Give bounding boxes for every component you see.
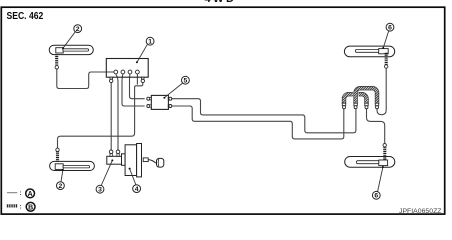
svg-text::: :: [19, 190, 21, 197]
wire junction5 lower-right port to coil connector1: [172, 106, 344, 139]
junction5 right ports: [168, 97, 172, 107]
svg-text:6: 6: [388, 25, 392, 32]
junction5 left ports: [147, 97, 152, 107]
label 4: [129, 168, 141, 193]
booster 4: [122, 144, 142, 177]
wire actuator right nipple to hose2-bottom: [58, 83, 143, 149]
wire hose2-top to actuator port1: [57, 69, 114, 89]
legend line type B: [7, 202, 35, 211]
label 2 bottom: [57, 169, 65, 190]
coil loop2 (legs x355.6 and x377): [356, 88, 377, 103]
wire actuator port1 down to master cylinder nipple2: [116, 74, 118, 150]
svg-text:2: 2: [59, 183, 63, 190]
label 5: [163, 76, 189, 98]
svg-text:2: 2: [76, 26, 80, 33]
wire actuator port2 to junction5 lower-left port: [122, 74, 145, 106]
pipe-end circle hose2 bottom: [56, 148, 59, 151]
coil at hose2 bottom: [56, 151, 59, 162]
wire actuator port3 to junction5 upper-left port: [130, 74, 145, 99]
master cylinder 3: [107, 150, 123, 164]
coil connector2: [354, 103, 357, 109]
svg-text:1: 1: [148, 39, 152, 46]
hose 6 top-right capsule: [344, 46, 394, 57]
coil at hose6 top: [385, 53, 388, 65]
coil connector1: [342, 103, 345, 109]
wire junction5 upper-right port to coil connector2: [172, 99, 356, 133]
svg-text::: :: [19, 204, 21, 211]
actuator port circles: [114, 70, 139, 74]
pipe-end circle hose2 top: [55, 66, 58, 69]
svg-text:3: 3: [98, 187, 102, 194]
vacuum hose end knob: [157, 158, 164, 167]
actuator left nipple: [110, 77, 113, 82]
coil connector4: [375, 103, 378, 109]
coil at hose2 top: [55, 54, 58, 65]
wire actuator port4 stub: [136, 74, 138, 85]
check valve on booster: [143, 158, 156, 163]
hose 6 bottom-right capsule: [345, 157, 395, 168]
hose 2 bottom-left capsule: [50, 161, 95, 170]
label 1: [136, 37, 154, 63]
pipe-end circle hose6 bottom: [383, 144, 386, 147]
svg-text:6: 6: [374, 193, 378, 200]
coil connector3: [365, 103, 368, 109]
hose 2 top-left capsule: [49, 45, 93, 54]
svg-text:4WD: 4WD: [205, 0, 237, 5]
wire coil connector4 to hose6-top: [377, 68, 386, 114]
svg-text:JPFIA0650ZZ: JPFIA0650ZZ: [399, 208, 442, 215]
wire coil connector3 to hose6-bottom: [367, 109, 385, 144]
label 6 top: [382, 23, 394, 49]
label 6 bottom: [372, 166, 384, 200]
actuator box 1: [106, 59, 148, 78]
svg-text:SEC. 462: SEC. 462: [7, 11, 44, 22]
coil at hose6 bottom: [383, 147, 386, 160]
svg-text:5: 5: [184, 78, 188, 85]
coil loop1 (legs x344 and x366.5): [344, 94, 367, 103]
legend line type A: [7, 189, 35, 198]
actuator right nipple: [141, 77, 144, 82]
svg-text:4: 4: [135, 186, 139, 193]
svg-text:B: B: [28, 204, 33, 211]
label 3: [96, 159, 113, 193]
junction box 5: [151, 95, 168, 109]
wire actuator left nipple down to master cylinder nipple1: [110, 83, 112, 150]
label 2 top: [62, 25, 82, 50]
svg-text:A: A: [28, 191, 33, 198]
pipe-end circle hose6 top: [385, 65, 388, 68]
